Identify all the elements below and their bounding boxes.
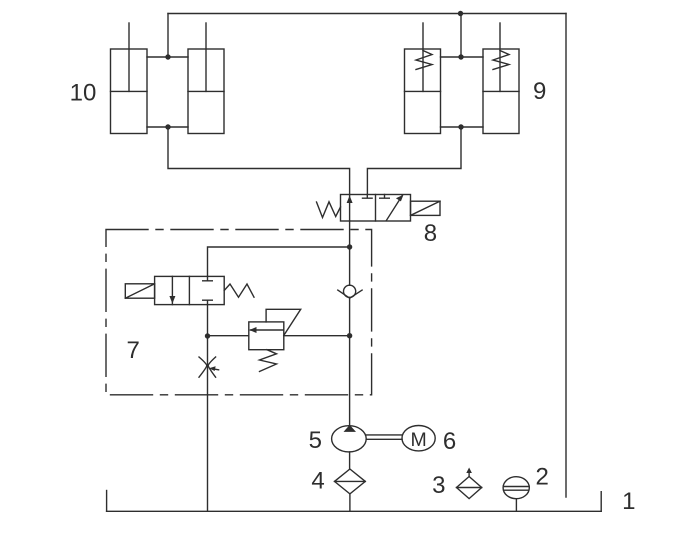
breather 3 element line xyxy=(457,487,482,489)
cylinder 10 left unit rod xyxy=(128,23,130,91)
cylinder 9 left unit body xyxy=(405,49,441,134)
enclosure box 7 dash-dot border xyxy=(106,230,372,395)
valve U7a solenoid xyxy=(125,284,154,298)
node main line junction xyxy=(347,333,352,338)
throttle arrow xyxy=(214,368,219,371)
node right pair bottom xyxy=(458,124,463,129)
gauge 2 inner lines xyxy=(503,487,529,491)
valve U8 spring xyxy=(317,202,341,218)
svg-text:M: M xyxy=(410,429,426,451)
valve U7a left flow line xyxy=(171,276,173,304)
valve U7a flow arrowhead down xyxy=(169,296,175,304)
throttle restrictor left arc xyxy=(199,357,207,377)
valve U8 body xyxy=(341,195,411,222)
cylinder 9 left unit piston xyxy=(405,90,441,92)
wire bottom connector right pair xyxy=(441,126,484,128)
breather 3 diamond xyxy=(457,477,482,499)
svg-text:1: 1 xyxy=(622,488,635,515)
valve U8 blocked port T left square xyxy=(363,195,373,199)
wire left pair to valve 8 xyxy=(168,127,350,195)
wire pilot branch to valve in box xyxy=(208,247,350,276)
relief valve U7b body xyxy=(249,322,284,350)
wire filter to tank xyxy=(349,494,351,511)
wire right pair to valve 8 xyxy=(367,127,461,195)
check valve ball xyxy=(344,285,356,297)
cylinder 9 left unit rod xyxy=(422,23,424,91)
svg-text:5: 5 xyxy=(309,427,322,454)
valve U8 solenoid xyxy=(411,201,441,215)
node throttle junction xyxy=(205,333,210,338)
wire valve U7a bottom to junction xyxy=(207,305,209,336)
valve U8 left flow line xyxy=(349,195,351,222)
wire bottom connector left pair xyxy=(147,126,188,128)
node pilot junction xyxy=(347,244,352,249)
motor M6 body xyxy=(402,426,435,451)
valve U7a solenoid diagonal xyxy=(125,284,154,298)
cylinder 10 right unit body xyxy=(188,49,224,134)
node left pair top xyxy=(165,54,170,59)
wire top connector left pair xyxy=(147,56,188,58)
wire relief valve to main line xyxy=(284,335,350,337)
svg-text:7: 7 xyxy=(127,337,140,364)
wire riser left pair xyxy=(167,14,169,58)
wire valve 8 to pilot junction xyxy=(349,221,351,247)
valve U7a spring xyxy=(224,284,254,297)
svg-text:10: 10 xyxy=(70,80,97,107)
wire main line to pump xyxy=(349,336,351,426)
svg-text:4: 4 xyxy=(311,468,324,495)
relief valve U7b flow line xyxy=(251,329,284,331)
node right pair top xyxy=(458,54,463,59)
cylinder 10 left unit body xyxy=(111,49,148,134)
breather 3 arrowhead xyxy=(466,468,472,474)
tank 1 right stub xyxy=(600,492,602,512)
svg-text:8: 8 xyxy=(424,220,437,247)
svg-text:9: 9 xyxy=(533,78,546,105)
wire pilot junction down to check valve xyxy=(349,247,351,285)
throttle arrowhead xyxy=(209,366,216,371)
gauge 2 stem xyxy=(515,499,517,512)
valve U8 diagonal arrowhead xyxy=(396,195,404,202)
valve U8 diagonal flow xyxy=(386,196,402,221)
cylinder 9 right unit piston xyxy=(483,90,519,92)
relief valve U7b spring xyxy=(260,350,277,372)
valve U8 divider xyxy=(375,195,377,222)
gauge 2 body xyxy=(503,477,529,499)
breather 3 arrow stem xyxy=(468,472,470,477)
filter F4 element line xyxy=(335,480,366,482)
svg-text:2: 2 xyxy=(536,463,549,490)
tank 1 left stub xyxy=(106,491,108,512)
cylinder 10 right unit rod xyxy=(205,23,207,91)
valve U7a blocked port T top xyxy=(203,276,213,280)
wire riser right pair xyxy=(460,14,462,58)
node top rail junction xyxy=(458,11,463,16)
cylinder 9 right unit body xyxy=(483,49,519,134)
cylinder 9 left unit spring xyxy=(416,51,432,70)
relief valve U7b flow arrowhead xyxy=(249,327,256,333)
wire top rail xyxy=(168,13,566,15)
check valve seat xyxy=(338,290,362,298)
wire junction to relief valve xyxy=(208,335,249,337)
valve U7a body xyxy=(155,276,225,304)
wire throttle line down to tank xyxy=(207,336,209,511)
pump P5 flow triangle xyxy=(344,425,357,432)
wire check valve to junction xyxy=(349,297,351,335)
cylinder 10 right unit piston xyxy=(188,90,224,92)
valve U8 left flow arrowhead xyxy=(347,196,353,204)
relief valve U7b pilot flag xyxy=(266,309,301,335)
svg-text:3: 3 xyxy=(432,472,445,499)
filter F4 diamond xyxy=(335,469,366,494)
cylinder 10 left unit piston xyxy=(111,90,148,92)
throttle restrictor right arc xyxy=(208,357,215,377)
pump P5 body xyxy=(332,426,367,452)
cylinder 9 right unit spring xyxy=(493,51,509,70)
wire top connector right pair xyxy=(441,56,484,58)
shaft pump to motor xyxy=(366,435,402,439)
tank 1 rail xyxy=(107,510,602,512)
node left pair bottom xyxy=(165,124,170,129)
valve U7a blocked port T bottom xyxy=(203,300,213,304)
cylinder 9 right unit rod xyxy=(499,23,501,91)
wire pump to filter xyxy=(349,452,351,469)
valve U8 solenoid diagonal xyxy=(411,201,441,215)
wire right return rail xyxy=(565,14,567,498)
valve U7a divider xyxy=(188,276,190,304)
valve U8 blocked port T right square xyxy=(380,195,390,199)
svg-text:6: 6 xyxy=(443,428,456,455)
